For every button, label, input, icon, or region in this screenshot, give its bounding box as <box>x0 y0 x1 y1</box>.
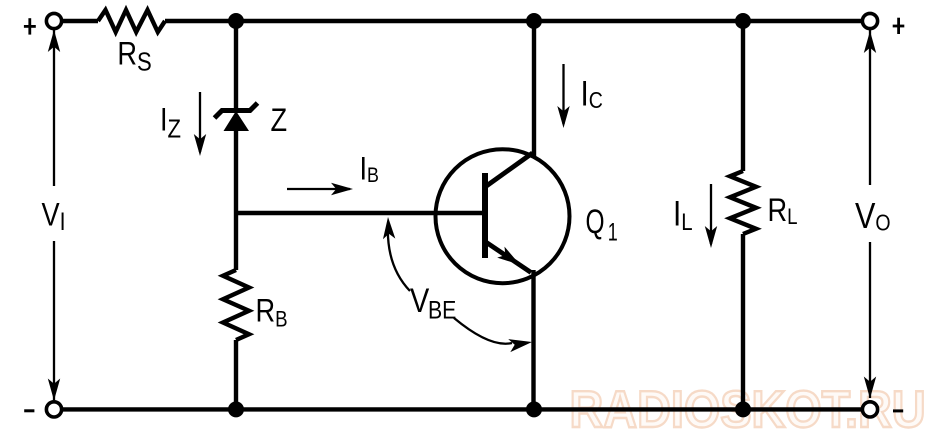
svg-text:Z: Z <box>271 103 288 139</box>
